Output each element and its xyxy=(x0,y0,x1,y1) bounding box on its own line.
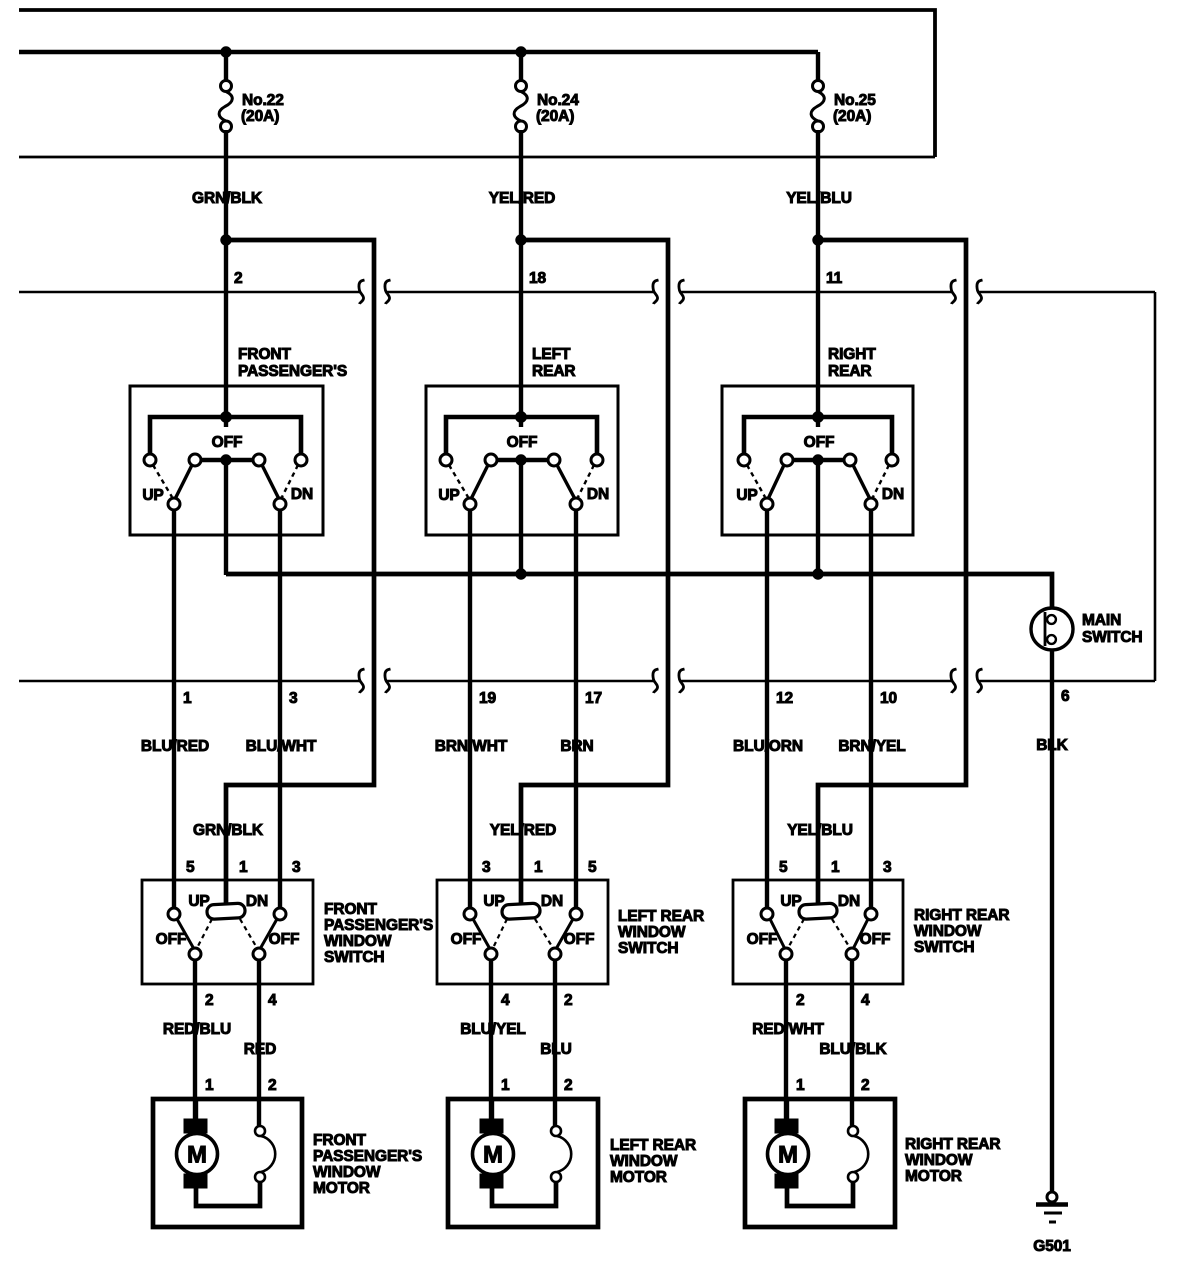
switch box LEFT REAR xyxy=(426,386,618,535)
svg-text:BLU: BLU xyxy=(540,1041,572,1058)
contact circles xyxy=(144,454,307,466)
svg-text:2: 2 xyxy=(564,1077,573,1094)
svg-text:OFF: OFF xyxy=(212,434,243,451)
motor M xyxy=(177,1099,218,1188)
svg-text:G501: G501 xyxy=(1033,1238,1071,1255)
DN throw xyxy=(557,465,609,510)
wire GRN/BLK from fuse to switch xyxy=(224,130,228,418)
contact circles xyxy=(464,908,582,920)
main switch U1 xyxy=(1031,608,1143,650)
svg-text:YEL/BLU: YEL/BLU xyxy=(786,190,852,207)
svg-text:RED: RED xyxy=(244,1041,276,1058)
wire pin 2 to motor xyxy=(784,960,788,1120)
svg-text:RIGHT REAR: RIGHT REAR xyxy=(905,1136,1000,1153)
svg-text:2: 2 xyxy=(564,992,573,1009)
svg-text:SWITCH: SWITCH xyxy=(914,939,975,956)
wire pole UP pin 1 xyxy=(172,510,176,908)
svg-text:OFF: OFF xyxy=(507,434,538,451)
svg-text:REAR: REAR xyxy=(828,363,872,380)
svg-text:6: 6 xyxy=(1061,688,1070,705)
svg-text:1: 1 xyxy=(501,1077,510,1094)
DN throw xyxy=(853,465,904,510)
svg-text:OFF: OFF xyxy=(451,931,482,948)
svg-text:MAIN: MAIN xyxy=(1082,612,1121,629)
svg-text:4: 4 xyxy=(268,992,277,1009)
svg-text:OFF: OFF xyxy=(156,931,187,948)
svg-text:1: 1 xyxy=(183,690,192,707)
motor name label FRONT PASSENGER'S WINDOW MOTOR xyxy=(313,1132,422,1197)
svg-text:UP: UP xyxy=(438,487,459,504)
position switch contacts xyxy=(551,1126,571,1182)
node T-junction xyxy=(150,412,301,455)
wire pin 2 to motor xyxy=(553,960,557,1127)
svg-text:WINDOW: WINDOW xyxy=(905,1152,973,1169)
wire pin 4 to motor xyxy=(489,960,493,1120)
svg-text:FRONT: FRONT xyxy=(324,901,378,918)
wire pole DN pin 17 xyxy=(574,510,578,908)
svg-text:BRN: BRN xyxy=(560,738,593,755)
svg-text:1: 1 xyxy=(205,1077,214,1094)
svg-text:RED/WHT: RED/WHT xyxy=(752,1021,824,1038)
wire pole UP pin 12 xyxy=(765,510,769,908)
svg-text:DN: DN xyxy=(587,486,609,503)
svg-text:BLK: BLK xyxy=(1036,737,1068,754)
svg-text:1: 1 xyxy=(796,1077,805,1094)
svg-text:No.25: No.25 xyxy=(834,92,876,109)
svg-text:10: 10 xyxy=(880,690,897,707)
throw lines left xyxy=(473,919,507,949)
contact circles xyxy=(761,908,877,920)
wire branch to window switch xyxy=(226,240,374,906)
junction xyxy=(516,235,526,245)
svg-text:DN: DN xyxy=(291,486,313,503)
motor M xyxy=(768,1099,809,1188)
OFF labels xyxy=(451,931,595,948)
UP throw xyxy=(438,465,488,510)
OFF contact bar xyxy=(200,455,254,575)
wire YEL/BLU from fuse to switch xyxy=(816,130,820,418)
svg-text:(20A): (20A) xyxy=(241,108,279,125)
switch box RIGHT REAR xyxy=(722,386,913,535)
svg-text:UP: UP xyxy=(483,893,504,910)
bus line second xyxy=(19,50,818,55)
svg-text:YEL/RED: YEL/RED xyxy=(489,190,555,207)
svg-text:GRN/BLK: GRN/BLK xyxy=(192,190,263,207)
contact circles xyxy=(738,454,898,466)
wire branch to window switch xyxy=(818,240,966,906)
pole circles xyxy=(780,948,858,960)
rocker button xyxy=(502,903,541,919)
svg-text:(20A): (20A) xyxy=(536,108,574,125)
svg-text:DN: DN xyxy=(541,893,563,910)
svg-text:SWITCH: SWITCH xyxy=(618,940,679,957)
ground G501 xyxy=(1033,1192,1071,1255)
throw lines left xyxy=(770,919,804,949)
svg-text:YEL/RED: YEL/RED xyxy=(490,822,556,839)
wire right side between connectors xyxy=(1154,292,1157,681)
svg-text:PASSENGER'S: PASSENGER'S xyxy=(313,1148,422,1165)
junction xyxy=(813,569,823,579)
svg-text:MOTOR: MOTOR xyxy=(905,1168,962,1185)
contact circles xyxy=(168,908,286,920)
svg-text:3: 3 xyxy=(482,859,491,876)
switch box FRONT PASSENGER'S xyxy=(130,386,323,535)
svg-text:RED/BLU: RED/BLU xyxy=(163,1021,231,1038)
wire common feed to main switch xyxy=(226,574,1052,609)
svg-text:17: 17 xyxy=(585,690,602,707)
window switch box LEFT REAR WINDOW SWITCH xyxy=(437,880,608,984)
window switch box FRONT PASSENGER'S WINDOW SWITCH xyxy=(142,880,313,984)
svg-text:WINDOW: WINDOW xyxy=(610,1153,678,1170)
throw lines right xyxy=(832,919,868,949)
position switch contacts xyxy=(848,1126,868,1182)
switch name label FRONT PASSENGER'S WINDOW SWITCH xyxy=(324,901,433,966)
motor box FRONT PASSENGER'S WINDOW MOTOR xyxy=(153,1099,302,1227)
svg-text:2: 2 xyxy=(234,270,243,287)
wire pole UP pin 19 xyxy=(468,510,472,908)
wire motor loop xyxy=(787,1182,853,1206)
OFF labels xyxy=(747,931,891,948)
svg-text:3: 3 xyxy=(289,690,298,707)
svg-text:4: 4 xyxy=(861,992,870,1009)
svg-text:18: 18 xyxy=(529,270,547,287)
UP throw xyxy=(142,465,192,510)
wire BLK from main switch to ground xyxy=(1050,650,1054,1192)
svg-text:UP: UP xyxy=(188,893,209,910)
svg-text:WINDOW: WINDOW xyxy=(324,933,392,950)
bus line third xyxy=(19,156,935,159)
svg-text:UP: UP xyxy=(736,487,757,504)
svg-text:YEL/BLU: YEL/BLU xyxy=(787,822,853,839)
position switch contacts xyxy=(255,1126,275,1182)
wire pin 4 to motor xyxy=(257,960,261,1127)
svg-text:SWITCH: SWITCH xyxy=(324,949,385,966)
wire pin 4 to motor xyxy=(850,960,854,1127)
svg-text:1: 1 xyxy=(239,859,248,876)
svg-text:5: 5 xyxy=(186,859,195,876)
svg-text:WINDOW: WINDOW xyxy=(618,924,686,941)
junction xyxy=(813,235,823,245)
svg-text:3: 3 xyxy=(292,859,301,876)
switch name label RIGHT REAR WINDOW SWITCH xyxy=(914,907,1009,956)
fuse No.25 (20A) xyxy=(811,52,876,132)
svg-text:BRN/YEL: BRN/YEL xyxy=(838,738,905,755)
svg-text:BLU/WHT: BLU/WHT xyxy=(246,738,317,755)
svg-text:M: M xyxy=(187,1142,207,1169)
svg-text:BRN/WHT: BRN/WHT xyxy=(435,738,508,755)
svg-text:DN: DN xyxy=(246,893,268,910)
svg-text:MOTOR: MOTOR xyxy=(610,1169,667,1186)
svg-text:SWITCH: SWITCH xyxy=(1082,629,1143,646)
wire pole DN pin 10 xyxy=(869,510,873,908)
svg-text:OFF: OFF xyxy=(804,434,835,451)
pole circles xyxy=(189,948,265,960)
svg-text:BLU/BLK: BLU/BLK xyxy=(819,1041,887,1058)
svg-text:4: 4 xyxy=(501,992,510,1009)
svg-text:BLU/YEL: BLU/YEL xyxy=(460,1021,526,1038)
connector row (upper) xyxy=(19,280,1155,304)
svg-text:M: M xyxy=(483,1142,503,1169)
svg-text:No.22: No.22 xyxy=(242,92,284,109)
connector row (lower) xyxy=(19,669,1155,693)
svg-text:OFF: OFF xyxy=(747,931,778,948)
svg-text:2: 2 xyxy=(796,992,805,1009)
svg-text:LEFT REAR: LEFT REAR xyxy=(618,908,704,925)
throw lines right xyxy=(535,919,573,949)
svg-text:2: 2 xyxy=(861,1077,870,1094)
pole circles xyxy=(485,948,561,960)
svg-text:2: 2 xyxy=(205,992,214,1009)
OFF contact bar xyxy=(496,455,549,575)
svg-text:OFF: OFF xyxy=(269,931,300,948)
svg-text:FRONT: FRONT xyxy=(313,1132,367,1149)
svg-text:RIGHT REAR: RIGHT REAR xyxy=(914,907,1009,924)
switch name label LEFT REAR WINDOW SWITCH xyxy=(618,908,704,957)
svg-text:12: 12 xyxy=(776,690,793,707)
OFF contact bar xyxy=(792,455,845,575)
svg-text:DN: DN xyxy=(838,893,860,910)
window switch box RIGHT REAR WINDOW SWITCH xyxy=(733,880,903,984)
master switch section LEFT REAR label xyxy=(532,346,576,380)
DN throw xyxy=(262,465,313,510)
junction xyxy=(516,569,526,579)
node T-junction xyxy=(446,412,597,455)
svg-text:(20A): (20A) xyxy=(833,108,871,125)
svg-text:No.24: No.24 xyxy=(537,92,579,109)
wire branch to window switch xyxy=(521,240,668,906)
OFF labels xyxy=(156,931,300,948)
svg-text:LEFT: LEFT xyxy=(532,346,571,363)
svg-text:1: 1 xyxy=(534,859,543,876)
svg-text:DN: DN xyxy=(882,486,904,503)
svg-text:UP: UP xyxy=(142,487,163,504)
bus line top (hot at all times) xyxy=(19,10,935,157)
svg-text:3: 3 xyxy=(883,859,892,876)
UP throw xyxy=(736,465,784,510)
svg-text:5: 5 xyxy=(779,859,788,876)
master switch section FRONT PASSENGER'S label xyxy=(238,346,347,380)
wire YEL/RED from fuse to switch xyxy=(519,130,523,418)
fuse No.22 (20A) xyxy=(219,47,284,132)
svg-text:BLU/ORN: BLU/ORN xyxy=(733,738,803,755)
svg-text:19: 19 xyxy=(479,690,497,707)
rocker button xyxy=(207,903,246,919)
svg-text:UP: UP xyxy=(780,893,801,910)
svg-text:REAR: REAR xyxy=(532,363,576,380)
motor box LEFT REAR WINDOW MOTOR xyxy=(448,1099,598,1227)
wire pole DN pin 3 xyxy=(278,510,282,908)
svg-text:2: 2 xyxy=(268,1077,277,1094)
wire pin 2 to motor xyxy=(193,960,197,1120)
master switch section RIGHT REAR label xyxy=(828,346,876,380)
motor M xyxy=(473,1099,514,1188)
svg-text:MOTOR: MOTOR xyxy=(313,1180,370,1197)
throw lines left xyxy=(177,919,212,949)
svg-text:1: 1 xyxy=(831,859,840,876)
fuse No.24 (20A) xyxy=(514,47,579,132)
svg-text:WINDOW: WINDOW xyxy=(313,1164,381,1181)
svg-text:OFF: OFF xyxy=(860,931,891,948)
svg-text:WINDOW: WINDOW xyxy=(914,923,982,940)
svg-text:PASSENGER'S: PASSENGER'S xyxy=(324,917,433,934)
svg-text:OFF: OFF xyxy=(564,931,595,948)
svg-text:M: M xyxy=(778,1142,798,1169)
svg-text:11: 11 xyxy=(826,270,843,287)
svg-text:RIGHT: RIGHT xyxy=(828,346,876,363)
motor name label LEFT REAR WINDOW MOTOR xyxy=(610,1137,696,1186)
svg-text:FRONT: FRONT xyxy=(238,346,292,363)
motor box RIGHT REAR WINDOW MOTOR xyxy=(745,1099,895,1227)
contact circles xyxy=(440,454,603,466)
junction xyxy=(221,235,231,245)
wire motor loop xyxy=(492,1182,556,1206)
rocker button xyxy=(799,903,838,919)
wire motor loop xyxy=(196,1182,260,1206)
svg-text:BLU/RED: BLU/RED xyxy=(141,738,209,755)
node T-junction xyxy=(744,412,892,455)
svg-text:GRN/BLK: GRN/BLK xyxy=(193,822,264,839)
svg-text:5: 5 xyxy=(588,859,597,876)
svg-text:PASSENGER'S: PASSENGER'S xyxy=(238,363,347,380)
motor name label RIGHT REAR WINDOW MOTOR xyxy=(905,1136,1000,1185)
throw lines right xyxy=(240,919,277,949)
svg-text:LEFT REAR: LEFT REAR xyxy=(610,1137,696,1154)
